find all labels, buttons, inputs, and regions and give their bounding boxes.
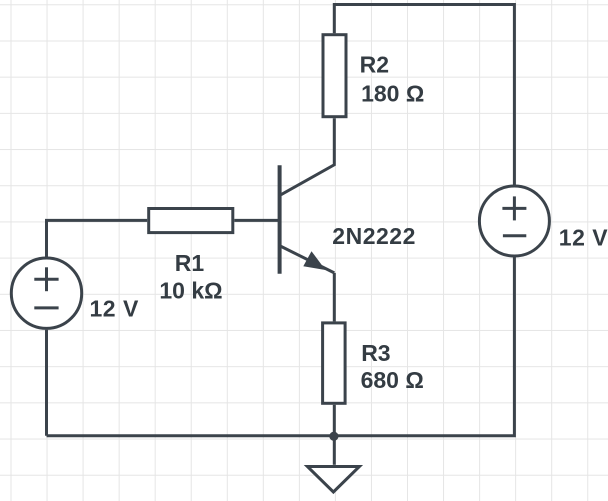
wire V1 bottom lead — [45, 330, 48, 436]
svg-text:R3: R3 — [361, 340, 390, 366]
resistor R3 — [323, 323, 346, 403]
wire bottom rail with V2 bottom lead — [47, 256, 515, 435]
node junction dot at emitter ground — [329, 432, 338, 441]
wire top rail from R2 top to V2 top — [334, 5, 514, 186]
resistor R1 — [149, 209, 233, 233]
transistor Q1 2N2222 — [280, 118, 335, 274]
svg-text:12 V: 12 V — [90, 295, 139, 321]
svg-text:R1: R1 — [175, 250, 205, 276]
wire R1 right to base — [234, 219, 279, 222]
resistor R2 — [323, 35, 346, 117]
svg-text:2N2222: 2N2222 — [332, 223, 416, 249]
svg-text:12 V: 12 V — [559, 224, 608, 250]
wire R3 bottom to ground through junction — [333, 405, 336, 465]
svg-text:10 kΩ: 10 kΩ — [159, 278, 222, 304]
svg-text:180 Ω: 180 Ω — [361, 80, 424, 106]
battery V2 right 12V source — [479, 186, 549, 256]
svg-text:680 Ω: 680 Ω — [361, 367, 424, 393]
wire emitter to R3 top — [333, 273, 336, 322]
ground — [307, 467, 359, 493]
wire V1 top lead to R1 left — [47, 220, 148, 257]
battery V1 left 12V source — [11, 258, 81, 328]
svg-text:R2: R2 — [360, 52, 389, 78]
